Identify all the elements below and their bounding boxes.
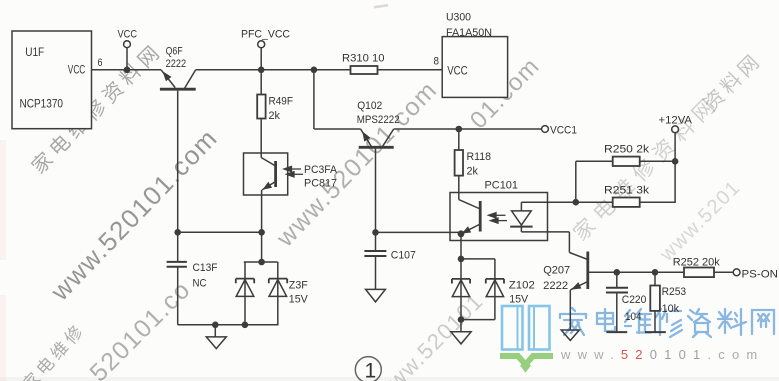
wire U1F pin6 to Q6F — [92, 69, 162, 71]
terminal PFC_VCC — [258, 41, 265, 48]
logo book left page — [502, 306, 523, 350]
LED PC101 cathode lead — [521, 225, 569, 253]
resistor R49F — [257, 95, 265, 119]
terminal VCC1 — [542, 126, 549, 133]
svg-text:R251 3k: R251 3k — [604, 184, 650, 196]
junction dot Z3F left zener — [242, 322, 249, 329]
transistor Q102 emitter line — [361, 129, 372, 147]
light arrows PC3FA — [291, 168, 301, 170]
svg-text:15V: 15V — [289, 293, 309, 305]
scan tint bottom edge — [0, 377, 779, 381]
wire PFC_VCC stub — [260, 48, 262, 70]
IC U1F box — [12, 31, 92, 129]
svg-text:Q207: Q207 — [543, 265, 570, 277]
ground symbol Q207 — [561, 330, 579, 341]
svg-text:Z3F: Z3F — [289, 279, 308, 291]
svg-text:VCC: VCC — [118, 28, 138, 40]
svg-text:PC3FA: PC3FA — [304, 164, 338, 176]
transistor Q207 base bar — [586, 252, 589, 290]
junction dot Z3F top bar — [258, 259, 265, 266]
junction dot ground tap Z3F rail — [212, 322, 219, 329]
PC101 phototransistor emitter — [461, 224, 480, 234]
wire C13F bottom lead — [177, 267, 179, 325]
svg-text:2222: 2222 — [543, 280, 568, 292]
terminal +12VA — [672, 126, 679, 133]
junction dot Q102 base node — [372, 229, 379, 236]
svg-text:10k: 10k — [662, 303, 680, 315]
svg-text:NCP1370: NCP1370 — [20, 96, 64, 110]
svg-text:MPS2222: MPS2222 — [357, 114, 400, 126]
arrowhead Q6F emitter — [163, 71, 172, 81]
transistor Q207 collector line — [569, 253, 587, 260]
svg-text:PC101: PC101 — [485, 179, 519, 191]
svg-text:VCC1: VCC1 — [550, 125, 577, 137]
scan tint left edge — [0, 140, 6, 260]
logo hanzi wang — [752, 310, 774, 334]
junction dot R250 +12VA — [672, 158, 679, 165]
wire PC101 emitter down to Z102 — [460, 234, 462, 259]
LED PC101 anode wire — [521, 201, 612, 203]
svg-text:+12VA: +12VA — [659, 115, 693, 127]
junction dot branch Q102 — [311, 67, 318, 74]
ground symbol left — [206, 337, 226, 349]
wire R253 top lead — [654, 272, 656, 285]
transistor Q6F base bar — [160, 88, 196, 91]
svg-text:Z102: Z102 — [509, 280, 535, 292]
wire Q102 collector to VCC1 — [394, 128, 542, 130]
PC3FA phototransistor collector — [261, 158, 275, 167]
svg-text:C107: C107 — [391, 249, 416, 261]
svg-text:www.520101.com: www.520101.com — [560, 347, 764, 362]
transistor Q102 collector line — [382, 129, 394, 147]
PC3FA phototransistor emitter — [262, 182, 275, 190]
wire node to PC101 emitter — [376, 231, 462, 233]
svg-text:8: 8 — [434, 56, 440, 68]
wire Z3F top lead — [261, 232, 263, 262]
wire R49F bottom lead — [260, 119, 262, 158]
wire Z102 ground stub — [460, 320, 462, 332]
arrowhead PC101 emitter — [462, 226, 472, 233]
svg-text:15V: 15V — [509, 293, 529, 305]
wire Z102 top bar — [461, 258, 495, 260]
wire C220 bottom lead — [616, 293, 618, 332]
wire R118 top lead — [458, 129, 460, 150]
resistor R250 — [613, 157, 640, 166]
ground symbol Z102 — [451, 332, 471, 344]
junction dot VCC — [124, 67, 131, 74]
svg-text:R252 20k: R252 20k — [673, 256, 720, 268]
wire Z3F right vertical — [277, 262, 279, 325]
svg-text:C13F: C13F — [193, 262, 218, 274]
watermark dash fragment top — [374, 4, 388, 8]
wire Q6F collector to PFC_VCC — [196, 69, 351, 71]
zener Z3F right triangle — [269, 280, 287, 297]
wire ground stub — [214, 325, 216, 337]
svg-text:R253: R253 — [662, 286, 687, 298]
zener Z102 right triangle — [486, 280, 503, 297]
transistor Q207 emitter line — [571, 282, 588, 290]
logo book right page — [529, 306, 550, 350]
IC U300 box — [442, 37, 507, 98]
junction dot LED anode node — [573, 199, 580, 206]
transistor Q6F emitter line — [161, 70, 175, 88]
wire to R250 — [576, 160, 613, 162]
wire C220 top lead — [616, 272, 618, 287]
resistor R252 — [684, 268, 714, 278]
junction dot C220 — [614, 269, 621, 276]
zener Z102 left triangle — [452, 280, 469, 297]
svg-text:R118: R118 — [467, 151, 492, 163]
zener Z3F left cathode bar — [236, 279, 254, 284]
svg-text:VCC: VCC — [68, 62, 86, 76]
svg-text:2k: 2k — [269, 110, 281, 122]
svg-text:Q6F: Q6F — [166, 46, 183, 58]
resistor R310 — [351, 66, 378, 74]
svg-text:PC817: PC817 — [304, 178, 337, 190]
wire Q102 base down — [375, 148, 377, 233]
terminal PS-ON — [733, 269, 740, 276]
junction dot Z102 bottom — [458, 316, 465, 323]
junction dot PC101 emitter node — [458, 230, 465, 237]
logo hanzi dian — [597, 309, 615, 331]
logo book green swoosh — [500, 356, 553, 365]
PC101 phototransistor bar — [479, 201, 482, 232]
capacitor C220 plates — [606, 288, 628, 293]
capacitor C13F plates — [167, 262, 187, 267]
wire branch down to Q102 — [313, 70, 315, 129]
wire Z3F left vertical — [244, 262, 246, 325]
logo hanzi jia — [560, 308, 586, 335]
PC101 phototransistor collector — [459, 200, 480, 209]
wire Q6F base down — [177, 91, 179, 233]
wire R253 bottom lead — [654, 311, 656, 332]
svg-text:R310 10: R310 10 — [342, 53, 385, 65]
svg-text:R49F: R49F — [269, 96, 294, 108]
LED PC101 anode stub — [520, 202, 522, 211]
wire node base-emitter horizontal — [178, 231, 262, 233]
optocoupler PC3FA box — [244, 153, 288, 195]
svg-text:NC: NC — [193, 277, 207, 289]
junction dot Q6F base node — [174, 229, 181, 236]
wire R49F top lead — [260, 70, 262, 95]
wire node LED-R250-R251 vertical — [575, 161, 577, 202]
light arrows PC101 — [496, 214, 506, 216]
ground bar R253 — [645, 331, 666, 333]
svg-text:U1F: U1F — [25, 45, 44, 59]
wire Z3F top bar — [244, 261, 278, 263]
resistor R253 — [650, 286, 660, 311]
junction dot PFC_VCC — [258, 67, 265, 74]
svg-text:2k: 2k — [467, 165, 479, 177]
logo hanzi zi — [688, 309, 711, 337]
svg-text:Q102: Q102 — [357, 100, 382, 112]
terminal VCC top-left — [124, 41, 131, 48]
svg-text:R250 2k: R250 2k — [604, 143, 650, 155]
svg-text:VCC: VCC — [447, 64, 468, 78]
arrowhead PC3FA emitter — [263, 182, 273, 190]
wire R118 bottom lead — [458, 176, 460, 200]
wire R310 left — [350, 69, 352, 71]
resistor R118 — [455, 150, 463, 176]
zener Z3F left triangle — [236, 280, 254, 297]
svg-text:6: 6 — [98, 57, 103, 69]
junction dot PC3FA emitter node — [258, 229, 265, 236]
junction dot R118 — [456, 126, 463, 133]
circled figure number 1 — [355, 357, 381, 381]
wire Q207 base to R252 — [589, 271, 684, 273]
wire Z102 bottom bar — [461, 319, 495, 321]
svg-text:C220: C220 — [622, 294, 647, 306]
junction dot R253 — [652, 269, 659, 276]
svg-text:104: 104 — [625, 311, 642, 323]
wire R250 right — [640, 160, 675, 162]
wire C107 top lead — [375, 232, 377, 250]
LED PC101 cathode bar — [510, 226, 532, 228]
wire VCC stub — [126, 48, 128, 70]
junction dot Z102 top — [458, 256, 465, 263]
zener Z3F right cathode bar — [269, 279, 287, 284]
logo hanzi wei — [625, 309, 651, 333]
wire R252 to PS-ON — [714, 271, 733, 273]
svg-text:2222: 2222 — [166, 58, 187, 70]
optocoupler PC101 box — [450, 193, 548, 241]
wire Q207 emitter down — [569, 290, 571, 330]
zener Z102 left cathode bar — [452, 279, 470, 284]
transistor Q102 base bar — [359, 146, 394, 149]
logo hanzi xiu — [656, 309, 682, 337]
wire R310 to U300 pin8 — [378, 69, 443, 71]
svg-text:FA1A50N: FA1A50N — [446, 27, 492, 39]
zener Z102 right cathode bar — [486, 279, 504, 284]
resistor R251 — [613, 198, 640, 207]
wire Z102 right vertical — [494, 259, 496, 320]
wire PC3FA emitter down — [261, 190, 263, 233]
wire ground rail Z3F — [178, 324, 279, 326]
wire C13F top lead — [177, 232, 179, 261]
arrowhead Q207 emitter — [571, 282, 582, 290]
ground bar C220 — [606, 331, 627, 333]
svg-text:U300: U300 — [446, 12, 471, 24]
wire +12VA down and to R251 — [640, 133, 675, 203]
LED PC101 triangle — [512, 211, 532, 225]
wire Z102 left vertical — [460, 259, 462, 320]
svg-text:PS-ON: PS-ON — [742, 269, 779, 281]
wire C107 bottom lead — [375, 257, 377, 290]
svg-text:PFC_VCC: PFC_VCC — [241, 29, 290, 41]
PC3FA phototransistor bar — [274, 161, 277, 187]
transistor Q6F collector line — [184, 70, 196, 89]
logo hanzi liao — [718, 309, 746, 335]
capacitor C107 plates — [364, 251, 386, 256]
ground symbol C107 — [366, 289, 386, 302]
wire to Q102 emitter — [314, 128, 361, 130]
svg-text:1: 1 — [365, 360, 377, 381]
arrowhead Q102 emitter — [362, 131, 370, 141]
